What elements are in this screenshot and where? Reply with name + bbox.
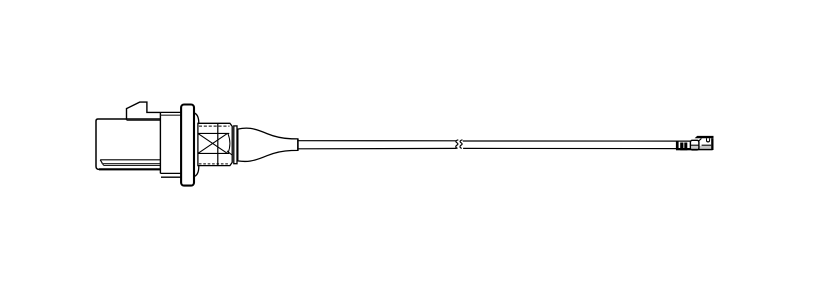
boot tip edge xyxy=(297,139,299,151)
cable lower line right section xyxy=(463,147,690,149)
hex cross diagonal 2 xyxy=(198,133,228,153)
latch tab xyxy=(127,102,161,120)
body rail wedge xyxy=(100,160,103,166)
hex end cap xyxy=(234,126,237,164)
body rail line B1 xyxy=(102,163,161,165)
hex middle vertical xyxy=(217,123,219,165)
body rail line B2 xyxy=(104,164,161,166)
terminal box lower shading xyxy=(691,146,698,149)
terminal neck diagonal xyxy=(699,139,702,141)
terminal wire crimp wings xyxy=(680,143,687,151)
hex facet arc xyxy=(228,133,230,153)
cable break S right xyxy=(460,140,463,149)
hex hidden line bottom (dashed) xyxy=(199,163,230,165)
body rail line A xyxy=(100,159,160,161)
terminal bottom bar xyxy=(676,149,713,151)
collar top line xyxy=(160,111,180,113)
hex end cap right edge xyxy=(237,129,239,161)
terminal shading band xyxy=(699,146,711,149)
terminal transition box xyxy=(690,140,699,150)
terminal insulation crimp band xyxy=(676,141,679,150)
boot taper xyxy=(238,128,298,161)
connector body outline xyxy=(96,119,160,169)
connector body bottom thick edge xyxy=(99,168,160,170)
collar bottom seal line xyxy=(161,176,181,178)
hex corner diagonal xyxy=(227,151,232,156)
terminal right vertical xyxy=(711,138,713,150)
terminal flag top bar xyxy=(695,136,714,138)
hex band top line xyxy=(198,132,229,134)
collar left vertical xyxy=(159,112,161,173)
cable upper line left section xyxy=(298,140,456,142)
cable lower line left section xyxy=(298,147,457,149)
terminal box mid line xyxy=(690,144,699,146)
hex band bottom line xyxy=(198,152,229,154)
cable upper line right section xyxy=(463,140,691,142)
collar bottom line xyxy=(160,172,181,174)
cable break S left xyxy=(456,140,459,149)
hex cross diagonal 1 xyxy=(198,133,228,153)
mounting flange xyxy=(181,105,194,186)
shoulder behind flange xyxy=(194,113,199,177)
hex nut body xyxy=(198,123,232,165)
hex hidden line top (dashed) xyxy=(199,125,230,127)
collar top inner line xyxy=(160,114,180,116)
terminal hook xyxy=(706,138,710,142)
latch base line xyxy=(127,119,161,121)
terminal inner bottom line xyxy=(702,144,712,146)
